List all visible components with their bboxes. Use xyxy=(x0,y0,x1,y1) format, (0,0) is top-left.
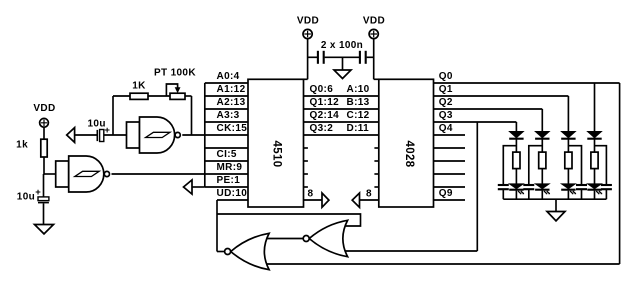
svg-text:1K: 1K xyxy=(132,81,146,92)
wire Q0:6 to A:10 xyxy=(304,95,379,97)
wire capacitor branch C5 xyxy=(503,146,516,185)
pin line row 1 (4510 left) xyxy=(205,95,248,97)
wire C5 to rail xyxy=(502,190,504,199)
svg-text:Q2: Q2 xyxy=(439,97,453,108)
pin line row 5 (4510 left) xyxy=(205,147,248,149)
LED4 xyxy=(587,184,601,189)
wire VDD to C3 xyxy=(308,56,317,58)
node junction R1/C1/gate xyxy=(44,173,57,175)
svg-text:A:10: A:10 xyxy=(347,84,370,95)
svg-text:10u: 10u xyxy=(88,119,106,130)
ground (left) xyxy=(35,225,54,234)
wire VDD to R1 xyxy=(43,127,45,139)
capacitor C7 plates xyxy=(576,184,587,186)
wire C6 to rail xyxy=(528,190,530,199)
resistor R6 xyxy=(565,152,572,169)
pin line row 2 (4510 left) xyxy=(205,108,248,110)
connector arrow pin8 4028 (left) xyxy=(352,193,359,207)
capacitor C1 10u polarized plates xyxy=(38,197,49,201)
svg-text:MR:9: MR:9 xyxy=(217,162,243,173)
wire LED4 to rail xyxy=(594,191,596,200)
wire R3 to feedback corner xyxy=(185,95,192,97)
wire caps to ground xyxy=(342,57,344,70)
resistor R2 1K xyxy=(130,93,148,99)
capacitor C3 100n plates xyxy=(317,51,319,64)
trimmer R3 wiper arm xyxy=(166,84,177,96)
wire Q1 to diode D3 xyxy=(567,96,569,131)
svg-text:8: 8 xyxy=(308,189,314,200)
svg-text:8: 8 xyxy=(366,189,372,200)
wire R4 to LED1 xyxy=(515,169,517,184)
resistor R1 1k xyxy=(41,139,47,157)
op-amp U3 4510 body xyxy=(248,79,304,207)
pin stub right 4028 row 5 xyxy=(434,147,466,149)
pin stub right 4510 row 6 xyxy=(304,160,308,162)
wire C7 to rail xyxy=(581,190,583,199)
pin stub left 4028 row 8 xyxy=(374,186,378,188)
wire Q2 to diode D2 xyxy=(541,109,543,131)
pin line row 6 (4510 left) xyxy=(205,160,248,162)
LED2 xyxy=(535,184,549,189)
LED3 xyxy=(561,184,575,189)
pin PE lead xyxy=(192,186,205,188)
diode D2 xyxy=(535,131,549,137)
svg-text:Q1:12: Q1:12 xyxy=(310,97,340,108)
pin line row 8 (4510 left) xyxy=(205,186,248,188)
wire R5 to LED2 xyxy=(541,169,543,184)
wire LED1 to rail xyxy=(515,191,517,200)
wire Q3:2 to D:11 xyxy=(304,134,379,136)
wire D2 to R5 xyxy=(541,139,543,152)
power VDD symbol (over 4028) xyxy=(369,29,378,38)
connector arrow PE (left) xyxy=(184,180,193,194)
wire UD pin down xyxy=(216,200,218,252)
op-amp U5A NOR gate (left, drives UD) xyxy=(231,233,269,269)
wire R1 to node xyxy=(43,157,45,175)
wire Q1:12 to B:13 xyxy=(304,108,379,110)
wire Q3 to diode D1 xyxy=(515,122,517,131)
connector arrow pin8 4510 (right) xyxy=(322,193,329,207)
resistor R5 xyxy=(539,152,546,169)
svg-text:CK:15: CK:15 xyxy=(217,123,248,134)
wire UD to NOR1 output bubble xyxy=(217,251,225,253)
svg-text:Q3: Q3 xyxy=(439,110,453,121)
svg-text:Q4: Q4 xyxy=(439,123,453,134)
wire VDD down to 4028 xyxy=(373,39,375,80)
wire cross-couple NOR1 out to NOR2 input xyxy=(217,214,361,226)
diode D4 xyxy=(587,131,601,137)
pin stub Q9 xyxy=(434,199,466,201)
wire Q1 line xyxy=(434,95,569,97)
wire R6 to LED3 xyxy=(567,169,569,184)
svg-text:D:11: D:11 xyxy=(347,123,370,134)
LED1 xyxy=(509,184,523,189)
svg-text:B:13: B:13 xyxy=(347,97,370,108)
wire Q0 to diode D4 xyxy=(594,83,596,131)
wire R2 to R3 xyxy=(148,95,170,97)
power VDD symbol (left) xyxy=(40,118,49,127)
node A feedback junction xyxy=(112,96,114,135)
svg-text:CI:5: CI:5 xyxy=(217,149,237,160)
svg-text:UD:10: UD:10 xyxy=(217,188,248,199)
svg-text:VDD: VDD xyxy=(297,16,319,27)
svg-text:Q0: Q0 xyxy=(439,71,453,82)
svg-text:Q3:2: Q3:2 xyxy=(310,123,334,134)
connector arrow input (left, CK row) xyxy=(67,128,75,143)
svg-text:PE:1: PE:1 xyxy=(217,175,241,186)
pin stub left 4028 row 5 xyxy=(374,147,378,149)
pin line row 4 (4510 left) xyxy=(205,134,248,136)
pin line row 3 (4510 left) xyxy=(205,121,248,123)
pin line row 7 (4510 left) xyxy=(205,173,248,175)
pin stub left 4028 row 7 xyxy=(374,173,378,175)
wire C4 to VDD xyxy=(367,56,374,58)
wire rail to ground xyxy=(555,199,557,211)
pin stub right 4028 row 6 xyxy=(434,160,466,162)
trimmer R3 PT 100K xyxy=(170,93,185,99)
op-amp U1 schmitt NAND gate (oscillator) xyxy=(127,122,140,148)
pin stub right 4028 row 7 xyxy=(434,173,466,175)
wire VDD down to 4510 xyxy=(307,39,309,80)
wire arrow to C2 xyxy=(75,134,97,136)
op-amp U2 schmitt NAND gate (reset) xyxy=(56,161,69,187)
pin 8 lead (4028) xyxy=(360,199,379,201)
wire C8 to rail xyxy=(605,190,607,199)
pin stub right 4510 row 8 xyxy=(304,186,308,188)
wire D4 to R7 xyxy=(594,139,596,152)
wire Q0 loop bottom to NOR1 input xyxy=(266,263,620,265)
svg-text:2 x 100n: 2 x 100n xyxy=(321,40,363,51)
capacitor C2 10u plates xyxy=(96,130,98,141)
ground (middle) xyxy=(334,70,351,79)
pin 8 lead (4510) xyxy=(304,199,323,201)
op-amp U4 4028 body xyxy=(379,79,434,207)
svg-text:VDD: VDD xyxy=(363,16,385,27)
resistor R4 xyxy=(513,152,520,169)
svg-text:Q1: Q1 xyxy=(439,84,453,95)
power VDD symbol (over 4510) xyxy=(303,29,312,38)
capacitor C8 plates xyxy=(601,184,612,186)
svg-text:A0:4: A0:4 xyxy=(217,71,240,82)
capacitor C5 plates xyxy=(498,184,509,186)
wire node to C1 xyxy=(43,174,45,197)
pin stub right 4510 row 5 xyxy=(304,147,308,149)
wire U1 output to CK pin xyxy=(182,134,205,136)
wire feedback down to CK net xyxy=(191,96,193,135)
wire 4510 pin column edge xyxy=(204,83,206,187)
pin stub right 4028 row 8 xyxy=(434,186,466,188)
diode D3 xyxy=(561,131,575,137)
svg-text:Q9: Q9 xyxy=(439,188,453,199)
wire Q0 line xyxy=(434,82,620,84)
svg-text:1k: 1k xyxy=(16,140,28,151)
svg-text:Q0:6: Q0:6 xyxy=(310,84,334,95)
wire NOR2 output to NOR1 input xyxy=(266,238,303,240)
wire capacitor branch C6 xyxy=(529,146,543,185)
capacitor C4 100n plates xyxy=(359,51,361,64)
pin UD:10 lead xyxy=(217,199,248,201)
svg-text:10u: 10u xyxy=(17,192,35,203)
wire capacitor branch C8 xyxy=(595,146,607,185)
svg-text:Q2:14: Q2:14 xyxy=(310,110,340,121)
svg-text:PT 100K: PT 100K xyxy=(154,68,196,79)
ground (LED rail) xyxy=(547,212,565,221)
svg-text:A1:12: A1:12 xyxy=(217,84,246,95)
capacitor C6 plates xyxy=(523,184,534,186)
svg-text:4028: 4028 xyxy=(403,141,415,168)
wire D3 to R6 xyxy=(567,139,569,152)
wire capacitor branch C7 xyxy=(568,146,581,185)
wire LED3 to rail xyxy=(567,191,569,200)
diode D1 xyxy=(509,131,523,137)
wire C2 to U1 input xyxy=(104,134,127,136)
wire D1 to R4 xyxy=(515,139,517,152)
wire C3 to C4 xyxy=(325,56,359,58)
wire LED2 to rail xyxy=(541,191,543,200)
pin stub left 4028 row 6 xyxy=(374,160,378,162)
svg-text:4510: 4510 xyxy=(271,141,283,168)
wire U2 output to MR pin xyxy=(112,173,205,175)
wire C1 to ground xyxy=(43,203,45,224)
svg-text:A3:3: A3:3 xyxy=(217,110,240,121)
wire Q3 line xyxy=(434,121,517,123)
wire Q2 line xyxy=(434,108,543,110)
wire LED ground rail xyxy=(503,198,606,200)
wire Q2:14 to C:12 xyxy=(304,121,379,123)
wire R7 to LED4 xyxy=(594,169,596,184)
pin line row 0 (4510 left) xyxy=(205,82,248,84)
pin stub Q4 xyxy=(434,134,466,136)
svg-text:VDD: VDD xyxy=(33,103,55,114)
svg-text:+: + xyxy=(35,187,41,198)
op-amp U5B NOR gate (right) xyxy=(309,220,347,256)
pin stub right 4510 row 7 xyxy=(304,173,308,175)
wire node to R2 xyxy=(113,95,130,97)
svg-text:C:12: C:12 xyxy=(347,110,370,121)
wire Q0 loop right side down xyxy=(619,83,621,264)
svg-text:A2:13: A2:13 xyxy=(217,97,246,108)
wire Q3 tap down to NOR2 input xyxy=(476,122,478,251)
resistor R7 xyxy=(591,152,598,169)
